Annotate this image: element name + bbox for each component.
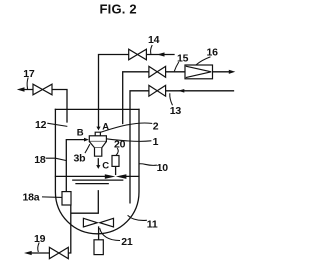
svg-text:19: 19 — [34, 233, 46, 245]
svg-text:15: 15 — [177, 53, 189, 65]
svg-text:18a: 18a — [23, 192, 40, 204]
svg-text:17: 17 — [23, 68, 35, 80]
svg-text:1: 1 — [153, 136, 159, 148]
svg-text:10: 10 — [157, 162, 169, 174]
svg-text:A: A — [102, 122, 109, 133]
svg-text:FIG. 2: FIG. 2 — [100, 2, 137, 17]
svg-text:20: 20 — [114, 138, 126, 150]
svg-text:21: 21 — [121, 236, 133, 248]
svg-text:13: 13 — [170, 105, 182, 117]
svg-text:2: 2 — [153, 120, 159, 132]
svg-text:14: 14 — [148, 34, 160, 46]
svg-text:11: 11 — [147, 218, 158, 230]
svg-text:B: B — [77, 128, 84, 139]
svg-text:18: 18 — [34, 154, 46, 166]
svg-text:C: C — [102, 161, 109, 172]
svg-text:3b: 3b — [74, 153, 86, 165]
svg-text:12: 12 — [35, 119, 47, 131]
svg-text:16: 16 — [207, 47, 219, 59]
